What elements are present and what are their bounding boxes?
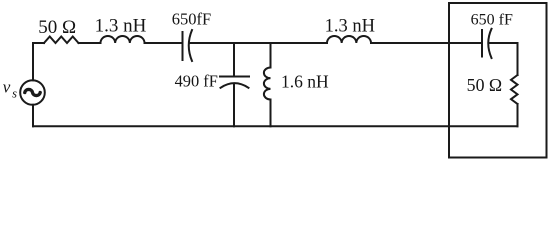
wire left vertical source branch lower bbox=[32, 105, 34, 127]
wire between resistor and L1 bbox=[79, 42, 101, 44]
resistor 50 ohm (load) bbox=[511, 75, 518, 104]
svg-text:1.3 nH: 1.3 nH bbox=[325, 17, 375, 37]
svg-text:vs: vs bbox=[3, 77, 17, 100]
wire shunt capacitor lower bbox=[233, 85, 235, 127]
capacitor 650 fF (load) curved right plate bbox=[488, 29, 491, 58]
capacitor 650 fF (load) left plate bbox=[481, 30, 483, 57]
wire load resistor bottom bbox=[517, 104, 519, 126]
wire shunt inductor lower bbox=[270, 100, 272, 127]
svg-text:650fF: 650fF bbox=[172, 10, 211, 29]
wire from series capacitor to L2 bbox=[189, 42, 327, 44]
svg-text:50 Ω: 50 Ω bbox=[38, 17, 76, 38]
wire shunt capacitor upper bbox=[233, 43, 235, 77]
capacitor 650fF (series) left plate bbox=[182, 32, 184, 60]
wire shunt inductor upper bbox=[270, 43, 272, 68]
wire bottom rail bbox=[33, 125, 518, 127]
inductor L2 1.3 nH bbox=[327, 36, 371, 43]
voltage source vs circle bbox=[20, 80, 45, 105]
voltage source sine wave bbox=[25, 89, 40, 95]
inductor 1.6 nH (shunt) bbox=[264, 68, 271, 100]
capacitor 650fF (series) curved right plate bbox=[189, 30, 192, 61]
svg-text:50 Ω: 50 Ω bbox=[467, 75, 502, 95]
wire left vertical source branch upper bbox=[32, 43, 34, 80]
wire top rail left segment bbox=[33, 42, 44, 44]
load box bbox=[449, 3, 547, 158]
svg-text:650 fF: 650 fF bbox=[471, 11, 513, 28]
inductor L1 1.3 nH bbox=[101, 36, 145, 43]
wire between L1 and series capacitor bbox=[145, 42, 183, 44]
capacitor 490 fF top plate bbox=[220, 76, 249, 78]
resistor 50 ohm (source) bbox=[44, 37, 79, 44]
capacitor 490 fF curved bottom plate bbox=[221, 83, 249, 88]
svg-text:1.6 nH: 1.6 nH bbox=[281, 71, 329, 91]
svg-text:490 fF: 490 fF bbox=[175, 72, 218, 91]
svg-text:1.3 nH: 1.3 nH bbox=[95, 16, 147, 37]
wire from L2 into load box to capacitor bbox=[371, 42, 482, 44]
wire from load capacitor to load resistor top bbox=[489, 43, 518, 75]
